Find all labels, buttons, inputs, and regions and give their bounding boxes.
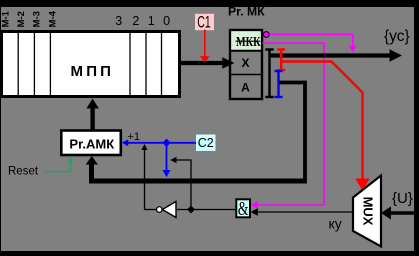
junction C2 node (blue diamond) bbox=[162, 139, 170, 147]
svg-text:A: A bbox=[241, 81, 250, 95]
svg-text:МПП: МПП bbox=[71, 63, 115, 80]
bracket register output (black) bbox=[268, 50, 270, 98]
wire МКК cell to MUX control / & gate (magenta) bbox=[253, 43, 324, 205]
wire C1 to МПП output (red arrow) bbox=[204, 30, 206, 57]
label C2 box bbox=[196, 135, 216, 152]
wire junction up and left (arrow at +1 path) bbox=[174, 160, 191, 210]
wire C2 node down to bus (blue arrow) bbox=[166, 143, 168, 172]
inverter bubble bbox=[145, 209, 157, 211]
svg-text:Pr. МК: Pr. МК bbox=[228, 5, 265, 19]
multiplexer MUX bbox=[353, 176, 381, 247]
svg-text:{ус}: {ус} bbox=[384, 28, 410, 45]
МПП column divider 2 bbox=[33, 33, 35, 95]
svg-text:М-3: М-3 bbox=[32, 11, 43, 27]
МПП column divider 4 bbox=[129, 33, 131, 95]
wire C2 to Pr.АМК (blue) bbox=[125, 142, 196, 144]
bus {УС} (thick arrow) bbox=[270, 53, 392, 57]
register Pr.МК box bbox=[230, 30, 262, 99]
wire МКК node to УС bus (magenta) bbox=[270, 35, 353, 48]
label C1 box bbox=[195, 14, 214, 30]
bracket X field (red) bbox=[280, 50, 282, 71]
junction diamond on inverter output bbox=[187, 206, 195, 214]
svg-text:ку: ку bbox=[329, 216, 342, 232]
cell X bbox=[230, 74, 262, 76]
node МКК output (magenta) bbox=[263, 32, 269, 38]
wire inverter input from +1 line (black, up arrow) bbox=[144, 145, 146, 210]
МПП column divider 3 bbox=[49, 33, 51, 95]
svg-text:М-4: М-4 bbox=[47, 10, 58, 27]
МПП column divider 5 bbox=[145, 33, 147, 95]
svg-text:+1: +1 bbox=[128, 131, 141, 143]
wire Reset to Pr.АМК (green) bbox=[44, 160, 71, 172]
gate & box bbox=[236, 199, 250, 217]
svg-text:0: 0 bbox=[163, 14, 170, 28]
wire inverter output to & gate bbox=[176, 209, 236, 211]
wire MUX output to & gate (black arrow) bbox=[253, 211, 353, 213]
svg-text:М-1: М-1 bbox=[0, 10, 11, 27]
svg-text:2: 2 bbox=[132, 14, 139, 28]
svg-text:1: 1 bbox=[148, 14, 155, 28]
wire {U} input to MUX (thick arrow) bbox=[391, 211, 414, 215]
svg-text:&: & bbox=[238, 198, 249, 220]
wire Pr.АМК to МПП address (thick arrow) bbox=[90, 106, 94, 130]
svg-text:Reset: Reset bbox=[8, 166, 39, 178]
svg-text:Pr.АМК: Pr.АМК bbox=[69, 136, 114, 151]
inverter triangle bbox=[162, 202, 176, 218]
svg-text:3: 3 bbox=[115, 14, 122, 28]
memory block МПП bbox=[2, 32, 180, 97]
svg-text:C2: C2 bbox=[198, 136, 214, 150]
svg-text:X: X bbox=[241, 56, 249, 70]
register Pr.АМК bbox=[61, 131, 121, 156]
svg-text:MUX: MUX bbox=[361, 197, 376, 226]
svg-text:{U}: {U} bbox=[392, 190, 413, 207]
cell МКК bbox=[231, 31, 261, 50]
wire X field to MUX (red) bbox=[281, 62, 362, 185]
МПП column divider 6 bbox=[161, 33, 163, 95]
wire МПП output to register X (thick arrow) bbox=[181, 61, 224, 65]
МПП column divider 1 bbox=[17, 33, 19, 95]
bracket A field (blue) bbox=[277, 71, 279, 97]
svg-text:C1: C1 bbox=[197, 14, 210, 32]
bus A field feedback to Pr.АМК (thick black) bbox=[279, 81, 305, 85]
svg-text:М-2: М-2 bbox=[16, 11, 27, 27]
